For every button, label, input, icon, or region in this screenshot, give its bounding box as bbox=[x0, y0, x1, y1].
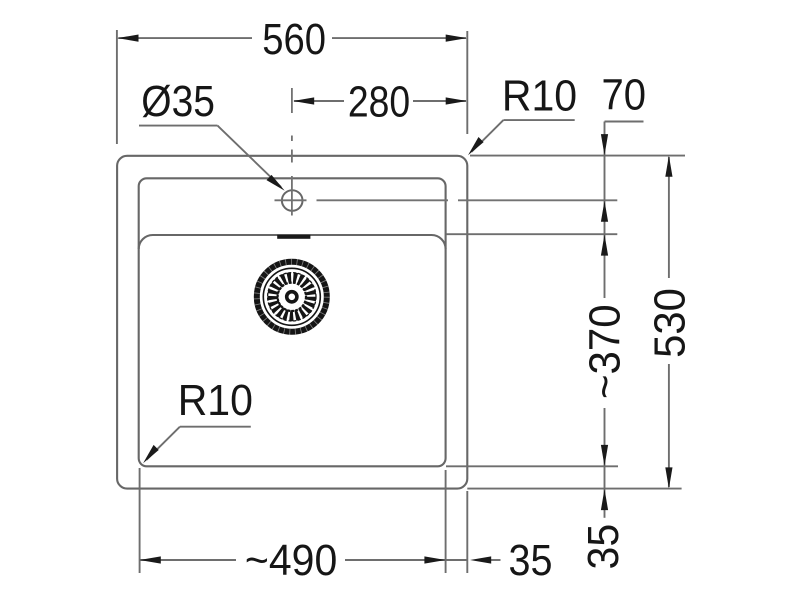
dim 70 arrow top bbox=[601, 134, 608, 155]
dim 560 arrow right bbox=[446, 35, 467, 42]
svg-text:530: 530 bbox=[646, 288, 695, 358]
dim 70/370 line bbox=[604, 122, 606, 518]
dim 530 line bbox=[668, 157, 670, 487]
svg-text:~370: ~370 bbox=[581, 304, 630, 399]
svg-text:280: 280 bbox=[348, 77, 410, 126]
dim 370 arrow top bbox=[601, 234, 608, 255]
overflow slot bbox=[277, 235, 310, 239]
dim 530 arrow top bbox=[665, 156, 672, 177]
svg-text:R10: R10 bbox=[502, 71, 577, 119]
faucet hole vertical centerline bbox=[291, 88, 293, 216]
svg-text:Ø35: Ø35 bbox=[141, 77, 215, 125]
dim 560 arrow left bbox=[117, 35, 138, 42]
sink bottom edge extension right bbox=[467, 488, 681, 490]
leader R10 top arrowhead bbox=[468, 137, 484, 155]
dim 560 line bbox=[118, 37, 466, 39]
bowl top edge extension right bbox=[446, 233, 617, 235]
svg-text:R10: R10 bbox=[178, 376, 253, 424]
dim 490 arrow right bbox=[424, 556, 445, 563]
dim 70 tail bbox=[605, 121, 644, 123]
dim 280 arrow right bbox=[446, 97, 467, 104]
dim 490 line bbox=[140, 559, 501, 561]
dim 560 extension line left bbox=[116, 30, 118, 144]
svg-text:560: 560 bbox=[262, 15, 326, 64]
dim 560/280 extension line right bbox=[466, 31, 468, 134]
faucet hole horizontal centerline bbox=[275, 199, 618, 201]
sink top edge extension right bbox=[470, 155, 685, 157]
dim 490 arrow left bbox=[140, 556, 161, 563]
sink inner rim bbox=[139, 178, 446, 466]
dim 280 line bbox=[294, 100, 466, 102]
leader R10 top bbox=[472, 120, 575, 152]
dim 70 arrow bottom bbox=[601, 201, 608, 222]
bowl top edge bbox=[139, 235, 446, 249]
sink outer edge bbox=[117, 156, 467, 489]
leader D35 bbox=[139, 126, 281, 187]
dim 530 arrow bottom bbox=[665, 467, 672, 488]
leader R10 bottom bbox=[147, 427, 251, 460]
bowl bottom edge extension right bbox=[446, 465, 618, 467]
svg-text:35: 35 bbox=[509, 535, 553, 584]
dim 490 extension line right bbox=[445, 470, 447, 573]
faucet hole bbox=[282, 190, 303, 211]
dim 280 arrow left bbox=[293, 97, 314, 104]
leader D35 arrowhead bbox=[267, 175, 285, 191]
dim 370 arrow bottom bbox=[601, 445, 608, 466]
svg-text:~490: ~490 bbox=[245, 536, 337, 584]
dim 35 bottom extension line bbox=[466, 491, 468, 573]
leader R10 bottom arrowhead bbox=[143, 445, 159, 463]
dim 35 right arrow bbox=[601, 489, 608, 510]
dim 490 extension line left bbox=[139, 468, 141, 573]
svg-text:70: 70 bbox=[602, 70, 647, 119]
svg-text:35: 35 bbox=[579, 524, 627, 570]
dim 35 bottom arrow bbox=[470, 556, 491, 563]
drain strainer bbox=[257, 262, 327, 332]
